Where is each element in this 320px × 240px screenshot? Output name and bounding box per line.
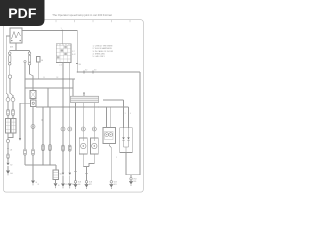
connector tick I12 on rail y72: [83, 71, 85, 74]
buzzer box with two circles: [103, 128, 116, 144]
noise filter box with cross: [30, 91, 36, 99]
ignition switch SW1 box: [10, 28, 22, 43]
wire column x50: [49, 107, 51, 165]
splice arrow A1: [7, 163, 10, 166]
svg-text:BS1: BS1: [133, 181, 136, 183]
ground G5b: [68, 175, 72, 188]
wire main vertical at x77: [76, 30, 78, 72]
wire column x43: [42, 107, 44, 165]
ground GA left: [6, 166, 10, 176]
ground G7: [109, 181, 113, 189]
ground G8: [85, 181, 89, 189]
door lock motor M1: [79, 138, 87, 154]
wire SW1 bottom to fuse bus: [15, 42, 17, 50]
wire merged drop x86.5: [86, 167, 88, 181]
arrow tip x63: [62, 173, 64, 175]
buzzer feeds: [107, 107, 111, 128]
diagram border frame: [4, 20, 144, 192]
ruler tick 3: [92, 20, 94, 23]
wire below relay box: [55, 180, 57, 184]
legend numbered notes: [93, 46, 114, 58]
wire y100 corner feed: [103, 100, 124, 128]
node dots on rail y79: [62, 78, 63, 79]
wire O5 down: [32, 155, 34, 180]
wire from SW1 right to node at x77: [22, 29, 78, 31]
svg-text:4: 4: [130, 113, 131, 115]
connector circle on F1 output: [9, 65, 11, 75]
ground GB: [31, 181, 35, 186]
splice circle on x33: [31, 125, 35, 129]
ground G5a: [61, 175, 65, 188]
wire J1 drop a: [62, 63, 64, 173]
svg-text:1: 1: [116, 157, 117, 159]
shielded junction bus bar center: [71, 96, 99, 102]
svg-text:2 4: 2 4: [59, 64, 61, 66]
connector tick on x75.5: [74, 171, 76, 173]
svg-text:W-B: W-B: [78, 182, 81, 184]
antenna arrow wire x20: [19, 103, 31, 140]
svg-text:W-B: W-B: [89, 182, 92, 184]
rail wire y79: [25, 78, 75, 80]
svg-text:W-B: W-B: [133, 179, 136, 181]
svg-text:PDF: PDF: [8, 5, 37, 21]
connector pair O3: [7, 154, 9, 159]
svg-text:I13: I13: [94, 70, 96, 72]
connector pair on x63: [62, 145, 65, 151]
node dot at feed: [62, 30, 63, 31]
ruler tick 4: [111, 20, 113, 23]
wire O1 down: [12, 116, 14, 119]
svg-text:I12: I12: [85, 70, 87, 72]
splice circle x83.3: [81, 127, 85, 131]
connector stub above rail y79: [24, 61, 26, 63]
wire C3 down: [7, 143, 9, 154]
wire bus y165: [25, 164, 56, 166]
wire C1 down: [12, 102, 14, 110]
svg-text:B 7: B 7: [72, 51, 75, 53]
wire drop x48 from rail y88 to rail y107: [47, 88, 49, 107]
bus drop x75.5 to ground: [75, 103, 77, 181]
connector tick I13 on rail y72: [92, 71, 94, 74]
connector tick above bus: [83, 93, 85, 97]
wire R1 to merge: [8, 133, 13, 138]
svg-text:IE: IE: [58, 185, 60, 187]
wire O3 down: [7, 158, 9, 162]
wire drop x73 from rail y79 to bus bar: [72, 79, 74, 97]
arrow tip x70: [69, 173, 71, 175]
indicator lamp box L1 with diodes: [120, 128, 133, 153]
small relay box RB: [53, 170, 59, 180]
PDF badge: [0, 0, 45, 26]
wire from SW1 left to border bus: [6, 35, 10, 37]
connector pair O2: [7, 109, 10, 115]
svg-text:1: 1: [61, 28, 62, 30]
relay unit small box B2: [31, 100, 37, 107]
wire right vertical x140: [139, 72, 141, 175]
svg-text:W3: W3: [65, 184, 68, 186]
wire left vertical bus: [6, 36, 8, 95]
junction block J1: [56, 44, 71, 63]
svg-text:The Operator speed lamp joint: The Operator speed lamp joint in car 200…: [52, 13, 112, 17]
svg-text:2. W-B IN HARNESS: 2. W-B IN HARNESS: [93, 47, 113, 50]
svg-text:3: 3: [125, 113, 126, 115]
connector C2: [6, 98, 10, 102]
resistor block R2: [5, 119, 10, 134]
ground G6: [74, 181, 78, 189]
splice circle on x70: [68, 127, 72, 131]
wire x33 below box: [32, 99, 34, 101]
wire to relay box RB: [55, 165, 57, 170]
svg-text:BP1: BP1: [89, 184, 92, 186]
fuse F1 chain: [8, 51, 11, 66]
node dots on y165: [42, 164, 43, 165]
connector tick with label: [7, 148, 9, 150]
connector pair on x70: [69, 145, 72, 151]
svg-text:5. LHD ONLY: 5. LHD ONLY: [93, 56, 106, 58]
wires merge below motors: [83, 154, 94, 167]
connector C1: [11, 98, 15, 102]
wires below lamp box merge: [126, 153, 140, 178]
svg-text:W-B: W-B: [114, 182, 117, 184]
node dot x77 y72: [77, 71, 78, 72]
svg-text:1J: 1J: [43, 77, 45, 79]
svg-text:IH6: IH6: [78, 184, 81, 186]
svg-text:IK4: IK4: [79, 64, 82, 66]
rail wire y88: [25, 87, 73, 89]
ground G9 right: [129, 178, 133, 186]
svg-text:3. IN CASE OF DOOR: 3. IN CASE OF DOOR: [93, 50, 114, 53]
page background: [0, 0, 149, 198]
svg-text:B2: B2: [10, 165, 12, 167]
rail wire y107: [36, 106, 129, 108]
ruler tick 5: [129, 20, 131, 23]
wire below small box B2: [32, 107, 34, 150]
wire C2 down: [7, 95, 9, 109]
splice circle x94.3: [92, 127, 96, 131]
bus drop x94.3: [93, 103, 95, 138]
svg-text:BR1: BR1: [114, 184, 117, 186]
wire F2 down: [30, 65, 34, 91]
connector pair O5: [32, 149, 35, 155]
ruler tick 1: [55, 20, 57, 23]
small fuse box above rail y79: [36, 56, 40, 79]
wire J1 drop b: [69, 63, 71, 173]
connector pair on x50 lower: [49, 145, 52, 151]
buzzer drop wire: [109, 144, 111, 181]
wire x25 long drop: [24, 88, 26, 149]
node dots on rail y107: [47, 106, 48, 107]
connector C3: [6, 139, 9, 142]
resistor block R1: [11, 119, 16, 134]
wire merge down: [7, 133, 9, 139]
fuse bus wire y50.5: [10, 50, 30, 52]
splice circle on x63: [61, 127, 65, 131]
fuse F2 chain: [28, 51, 31, 65]
wire O2 down: [7, 116, 9, 119]
wire drop to junction block J1: [61, 30, 63, 43]
wire x128.5 feed: [128, 107, 130, 128]
ground G4: [54, 183, 58, 188]
wire F1 down: [10, 78, 13, 97]
connector tick on x86.5: [85, 173, 87, 175]
bus drop x83.3: [82, 103, 84, 138]
connector pair O1: [12, 109, 15, 115]
connector pair on x43: [42, 145, 45, 151]
door lock motor M2: [90, 138, 98, 154]
rail wire y72 to right side: [77, 71, 140, 73]
connector pair on x25: [24, 149, 27, 155]
connector tick IK4 on x77 wire: [76, 63, 78, 65]
svg-text:1J6: 1J6: [10, 149, 13, 151]
connector tick on x43: [42, 119, 43, 121]
svg-text:IF: IF: [38, 184, 39, 186]
ruler tick 2: [74, 20, 76, 23]
wire x25 to shielded bar: [24, 155, 26, 165]
wire corner x25 joining rails: [24, 79, 26, 88]
